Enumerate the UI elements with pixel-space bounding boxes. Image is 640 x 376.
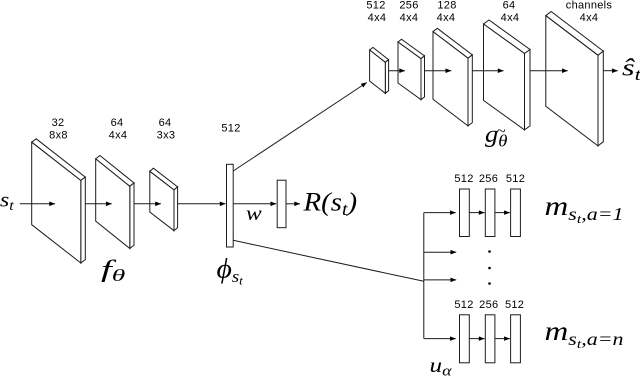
svg-text:64: 64 xyxy=(503,0,516,12)
label phi_st xyxy=(217,255,244,288)
svg-text:64: 64 xyxy=(159,117,172,129)
label s_t hat output xyxy=(622,55,640,84)
mlp bottom row rect 512 xyxy=(460,315,470,363)
conv layer 2 (64 4x4) xyxy=(96,156,134,249)
svg-text:512: 512 xyxy=(454,299,473,311)
arrow deconv5 to s_hat xyxy=(603,70,617,72)
arrow phi to w xyxy=(233,203,276,205)
mlp trunk vertical line xyxy=(423,213,425,339)
svg-text:4x4: 4x4 xyxy=(400,12,419,24)
svg-text:w: w xyxy=(246,201,262,225)
deconv layer 3 (128 4x4) xyxy=(433,28,472,126)
mlp top row rect 512b xyxy=(511,189,521,237)
arrow deconv4 to deconv5 xyxy=(530,70,568,72)
label f_theta xyxy=(101,255,125,284)
svg-text:4x4: 4x4 xyxy=(437,12,456,24)
svg-text:mst,a=n: mst,a=n xyxy=(545,316,624,352)
conv layer 1 (32 8x8) xyxy=(32,139,86,263)
arrow trunk to dots lower xyxy=(424,279,456,281)
svg-text:3x3: 3x3 xyxy=(157,130,176,142)
arrow trunk to mlp row 1 xyxy=(424,212,456,214)
svg-text:st: st xyxy=(0,188,15,214)
svg-text:512: 512 xyxy=(454,173,473,185)
svg-text:64: 64 xyxy=(111,117,124,129)
deconv layer 5 (channels 4x4) xyxy=(546,12,604,146)
arrow mlp bottom 256 to 512 xyxy=(495,338,510,340)
svg-text:ŝt: ŝt xyxy=(622,55,640,84)
vertical ellipsis dots xyxy=(488,250,491,285)
svg-text:512: 512 xyxy=(221,123,240,135)
arrow conv2 to conv3 xyxy=(134,203,161,205)
svg-text:fθ: fθ xyxy=(101,255,125,284)
arrow deconv2 to deconv3 xyxy=(425,70,452,72)
mlp top row rect 256 xyxy=(485,189,495,237)
svg-text:128: 128 xyxy=(437,0,456,12)
svg-text:512: 512 xyxy=(366,0,385,12)
svg-text:R(st): R(st) xyxy=(302,188,357,220)
svg-text:4x4: 4x4 xyxy=(109,130,128,142)
label s_t input xyxy=(0,188,15,214)
mlp bottom row rect 512b xyxy=(511,315,521,363)
label R(s_t) xyxy=(302,188,357,220)
svg-text:8x8: 8x8 xyxy=(49,130,68,142)
svg-text:512: 512 xyxy=(505,299,524,311)
mlp top row rect 512 xyxy=(460,189,470,237)
label g_theta-tilde xyxy=(485,122,508,150)
svg-text:~: ~ xyxy=(497,124,506,140)
deconv layer 1 (512 4x4) xyxy=(370,47,389,93)
label m_st_a1 xyxy=(545,191,624,227)
svg-text:mst,a=1: mst,a=1 xyxy=(545,191,624,227)
arrow deconv1 to deconv2 xyxy=(389,70,405,72)
arrow conv1 to conv2 xyxy=(85,203,111,205)
label w xyxy=(246,201,262,225)
svg-text:256: 256 xyxy=(479,173,498,185)
arrow phi to deconv1 (diagonal) xyxy=(233,83,367,172)
arrow s_t to conv1 xyxy=(20,203,55,205)
arrow mlp bottom 512 to 256 xyxy=(469,338,484,340)
label u_alpha xyxy=(430,354,452,376)
line phi to mlp trunk (diagonal) xyxy=(233,240,424,281)
weight vector w rect xyxy=(277,180,286,228)
feature vector phi rect (512) xyxy=(227,164,234,247)
svg-text:uα: uα xyxy=(430,354,452,376)
svg-text:4x4: 4x4 xyxy=(580,12,599,24)
conv layer 3 (64 3x3) xyxy=(150,168,178,231)
deconv layer 2 (256 4x4) xyxy=(398,39,425,99)
svg-text:4x4: 4x4 xyxy=(501,12,520,24)
svg-text:channels: channels xyxy=(566,0,613,12)
arrow trunk to mlp row n xyxy=(424,338,456,340)
arrow w to R xyxy=(286,203,300,205)
mlp bottom row rect 256 xyxy=(485,315,495,363)
svg-text:32: 32 xyxy=(52,117,65,129)
arrow mlp top 512 to 256 xyxy=(469,212,484,214)
svg-text:ϕst: ϕst xyxy=(217,255,244,288)
svg-text:512: 512 xyxy=(506,173,525,185)
svg-text:256: 256 xyxy=(479,299,498,311)
deconv layer 4 (64 4x4) xyxy=(484,20,531,130)
arrow trunk to dots upper xyxy=(424,251,456,253)
svg-text:256: 256 xyxy=(399,0,418,12)
svg-text:4x4: 4x4 xyxy=(368,12,387,24)
label m_st_an xyxy=(545,316,624,352)
arrow conv3 to phi xyxy=(178,203,226,205)
arrow deconv3 to deconv4 xyxy=(472,70,503,72)
arrow mlp top 256 to 512 xyxy=(495,212,510,214)
